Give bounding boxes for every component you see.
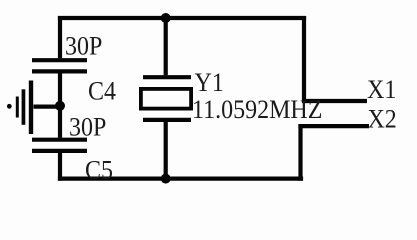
wire crystal bottom lead xyxy=(164,122,168,179)
wire bottom rail xyxy=(58,177,303,181)
wire top rail xyxy=(58,16,306,20)
svg-text:30P: 30P xyxy=(69,113,106,141)
svg-text:11.0592MHZ: 11.0592MHZ xyxy=(192,96,322,124)
ground xyxy=(7,81,33,135)
svg-text:C4: C4 xyxy=(88,78,116,106)
node top junction xyxy=(161,13,171,23)
wire X2 drop xyxy=(298,124,302,181)
node left junction xyxy=(55,101,65,111)
wire X1 stub xyxy=(304,99,367,103)
wire crystal top lead xyxy=(164,18,168,75)
capacitor C5 xyxy=(32,140,87,151)
wire ground lead xyxy=(34,104,61,108)
wire left rail lower xyxy=(58,153,62,181)
node bottom junction xyxy=(161,174,171,184)
svg-text:Y1: Y1 xyxy=(195,69,224,97)
svg-text:C5: C5 xyxy=(85,157,113,185)
wire X2 stub xyxy=(298,124,369,128)
wire left rail upper xyxy=(58,16,62,58)
svg-text:X1: X1 xyxy=(367,76,396,104)
wire left rail middle xyxy=(58,73,62,138)
svg-text:30P: 30P xyxy=(65,33,102,61)
capacitor C4 xyxy=(32,60,87,71)
svg-text:X2: X2 xyxy=(368,106,397,134)
crystal Y1 xyxy=(141,77,191,120)
wire right rail xyxy=(302,16,306,103)
